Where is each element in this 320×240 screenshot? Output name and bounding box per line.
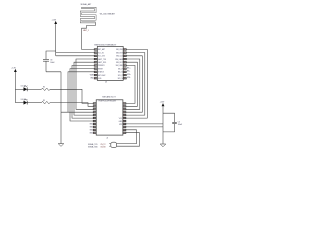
svg-text:J2: J2 [106, 138, 108, 140]
svg-text:14: 14 [123, 127, 125, 129]
svg-text:NETLIGHT: NETLIGHT [98, 75, 106, 77]
svg-text:R5: R5 [43, 100, 45, 102]
svg-text:VCC_IN: VCC_IN [98, 52, 104, 54]
svg-text:C8: C8 [50, 59, 52, 61]
svg-text:D6 LED: D6 LED [21, 99, 27, 101]
svg-text:15: 15 [123, 124, 125, 126]
svg-text:SIM_RST: SIM_RST [116, 52, 123, 54]
svg-text:SIM CARD SLOT: SIM CARD SLOT [102, 95, 116, 98]
svg-text:SPK+: SPK+ [127, 74, 131, 76]
svg-text:22: 22 [123, 103, 125, 105]
svg-text:SIM_GND: SIM_GND [116, 65, 124, 67]
svg-text:20: 20 [123, 109, 125, 111]
svg-text:21: 21 [123, 106, 125, 108]
svg-text:PWRKEY: PWRKEY [98, 65, 106, 67]
svg-text:SW1: SW1 [90, 127, 93, 129]
svg-text:MIC+: MIC+ [127, 67, 131, 69]
svg-text:SPK-: SPK- [127, 77, 131, 79]
svg-text:12: 12 [123, 133, 125, 135]
svg-text:SPK_P: SPK_P [118, 75, 123, 77]
svg-text:16: 16 [123, 121, 125, 123]
svg-text:100nF: 100nF [178, 124, 182, 126]
svg-text:R4: R4 [43, 87, 45, 89]
svg-text:10: 10 [94, 78, 96, 80]
svg-text:17: 17 [123, 118, 125, 120]
svg-text:U1: U1 [105, 82, 107, 84]
svg-text:PUSH PULL 6P HOLDER: PUSH PULL 6P HOLDER [99, 100, 117, 102]
svg-text:C3: C3 [178, 122, 180, 124]
svg-text:19: 19 [123, 112, 125, 114]
svg-text:MIC_P: MIC_P [118, 68, 123, 70]
svg-text:13: 13 [123, 130, 125, 132]
svg-text:18: 18 [123, 115, 125, 117]
svg-text:SIM_VDD: SIM_VDD [116, 49, 124, 51]
svg-text:ANT_1: ANT_1 [83, 29, 88, 32]
svg-text:MIC-: MIC- [127, 71, 131, 73]
svg-text:SIM_DET: SIM_DET [116, 62, 123, 64]
svg-text:SIM_CLK: SIM_CLK [116, 56, 123, 58]
svg-text:VCC_3V3: VCC_3V3 [98, 56, 105, 58]
svg-text:GSM MODULE SIM900A KIT: GSM MODULE SIM900A KIT [94, 43, 117, 46]
svg-text:RESET: RESET [98, 68, 103, 70]
svg-text:WL-1205 GSM ANT: WL-1205 GSM ANT [100, 12, 116, 15]
svg-text:SIGNAL_ANT: SIGNAL_ANT [81, 3, 93, 6]
svg-text:100nF: 100nF [50, 62, 54, 64]
svg-text:D5 LED: D5 LED [21, 86, 27, 88]
